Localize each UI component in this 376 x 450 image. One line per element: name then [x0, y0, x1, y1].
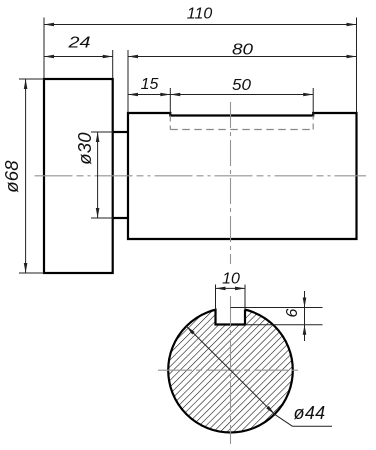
- keyway slot walls and bottom (section view): [216, 310, 246, 325]
- svg-text:ø30: ø30: [74, 132, 95, 165]
- vertical centerline (section plane) on shaft: [230, 102, 232, 264]
- hidden keyway bottom (dashed): [170, 116, 313, 130]
- flange outline (Ø68 disc, front view): [44, 79, 113, 273]
- dimension Ø44 diagonal with leader: [186, 326, 332, 426]
- svg-text:6: 6: [284, 308, 301, 317]
- dimension 110: [44, 6, 357, 113]
- keyway slot cutout (white): [217, 297, 245, 325]
- svg-text:ø68: ø68: [1, 160, 22, 193]
- dimension Ø68 (flange diameter): [1, 79, 44, 273]
- vertical centerline of section circle: [230, 296, 232, 444]
- horizontal centerline of shaft: [35, 175, 367, 177]
- svg-text:15: 15: [141, 76, 159, 93]
- svg-text:10: 10: [222, 271, 240, 288]
- dimension 10 (keyway width): [216, 271, 246, 310]
- svg-text:24: 24: [67, 35, 90, 52]
- svg-text:110: 110: [187, 6, 213, 23]
- svg-text:80: 80: [232, 42, 253, 59]
- svg-text:50: 50: [232, 77, 251, 94]
- dimension 80: [128, 42, 357, 113]
- section view circle Ø44 (hatched): [168, 308, 293, 433]
- horizontal centerline of section circle: [158, 369, 298, 371]
- dimension 50: [170, 77, 313, 115]
- stub Ø30 section between flange and shaft: [113, 132, 128, 218]
- dimension Ø30 (stub diameter): [74, 132, 113, 218]
- svg-text:ø44: ø44: [294, 403, 326, 423]
- dimension 15: [128, 76, 170, 115]
- dimension 24: [44, 35, 113, 79]
- shaft body Ø44 (front view) with keyway silhouette step: [128, 113, 357, 239]
- dimension 6 (keyway depth): [231, 291, 323, 341]
